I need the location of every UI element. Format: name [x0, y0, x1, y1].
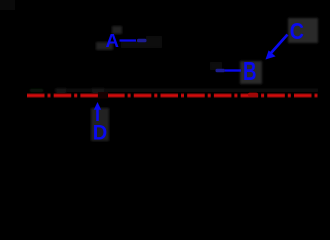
arrow C shaft [271, 35, 288, 54]
artifact halo patch below-left of label A [96, 42, 113, 50]
svg-text:D: D [93, 120, 108, 144]
arrow A head (dim bar) [137, 39, 147, 42]
artifact green smudge above first dash [30, 89, 43, 92]
principal axis (red dash-dot line) [27, 94, 319, 96]
arrow D shaft [96, 109, 99, 121]
svg-text:C: C [290, 18, 304, 44]
svg-text:B: B [243, 58, 257, 86]
artifact halo box label D [91, 108, 109, 141]
artifact halo box label B [240, 61, 262, 84]
arrow C head [266, 50, 276, 59]
dark marker gap on axis at D pointer [98, 92, 108, 99]
artifact halo box at arrowhead A [146, 36, 162, 48]
artifact halo patch above label A [112, 26, 122, 34]
artifact halo box under arrow A [121, 41, 147, 48]
arrow A shaft [120, 39, 137, 41]
arrow D head [94, 102, 101, 110]
artifact halo box on axis near D [92, 88, 104, 95]
faint corner block [0, 0, 15, 10]
artifact noise band above axis [55, 89, 318, 93]
artifact halo box at arrowhead B [210, 62, 222, 70]
arrow B shaft [225, 69, 241, 71]
axis halo (dark red) [27, 93, 319, 98]
artifact halo box on axis x56 [56, 88, 66, 94]
svg-text:A: A [106, 30, 120, 51]
arrow B head (dim bar) [216, 69, 226, 72]
artifact halo box label C [288, 18, 318, 43]
thick red marker blob on axis x248-258 [248, 93, 258, 97]
